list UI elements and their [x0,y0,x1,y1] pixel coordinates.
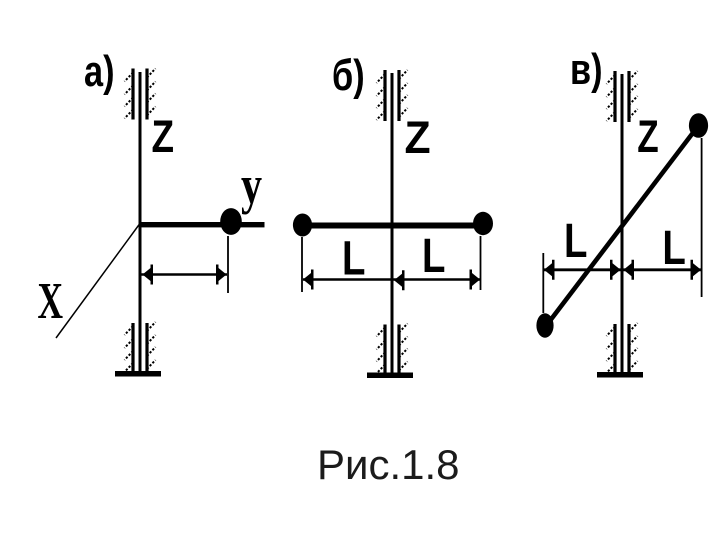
rod (a) [140,222,265,227]
mass (a) [220,208,242,235]
bearing top (v) [607,71,638,122]
mass left (b) [293,214,312,237]
svg-text:Рис.1.8: Рис.1.8 [317,441,460,488]
svg-text:L: L [422,230,445,283]
dimension arrowhead center-left (v) [610,260,621,280]
extension line below mass (a) [227,236,229,293]
svg-text:Z: Z [637,111,658,162]
extension line right (v) [701,138,703,297]
dimension arrowhead center-right (v) [624,260,635,280]
dimension arrowhead far left (b) [303,270,314,290]
x axis line (a) [56,222,141,338]
axis Z line (a) [139,72,142,371]
extension line right (b) [480,236,482,290]
svg-text:L: L [564,215,587,268]
rod (b) [299,223,484,229]
svg-text:б): б) [332,51,365,100]
axis Z line (v) [621,74,624,373]
bearing bottom (v) [597,323,643,378]
svg-text:Z: Z [405,113,431,163]
axis Z line (b) [391,73,394,373]
svg-text:L: L [342,233,365,286]
extension line left (v) [542,253,544,313]
bearing bottom (a) [115,322,161,377]
bearing bottom (b) [367,324,413,379]
extension line left (b) [301,237,303,292]
dimension line (v) [544,268,701,271]
svg-text:L: L [662,222,685,275]
dimension arrowhead far left (v) [544,260,555,280]
svg-text:в): в) [570,45,603,94]
dimension arrowhead left (a) [143,265,154,285]
bearing top (b) [377,70,408,121]
dimension line (a) [141,273,227,276]
mass right (b) [473,212,493,235]
svg-text:а): а) [84,47,115,96]
dimension arrowhead center (b) [394,270,405,290]
bearing top (a) [125,69,156,120]
rod diagonal (v) [546,126,699,327]
mass top right (v) [689,113,708,138]
dimension line (b) [303,278,480,281]
svg-text:y: y [241,156,262,215]
dimension arrowhead far right (b) [470,270,481,290]
dimension arrowhead right (a) [216,265,227,285]
dimension arrowhead far right (v) [691,260,702,280]
svg-text:Z: Z [152,112,175,162]
mass bottom left (v) [536,313,553,337]
svg-text:X: X [38,271,64,329]
